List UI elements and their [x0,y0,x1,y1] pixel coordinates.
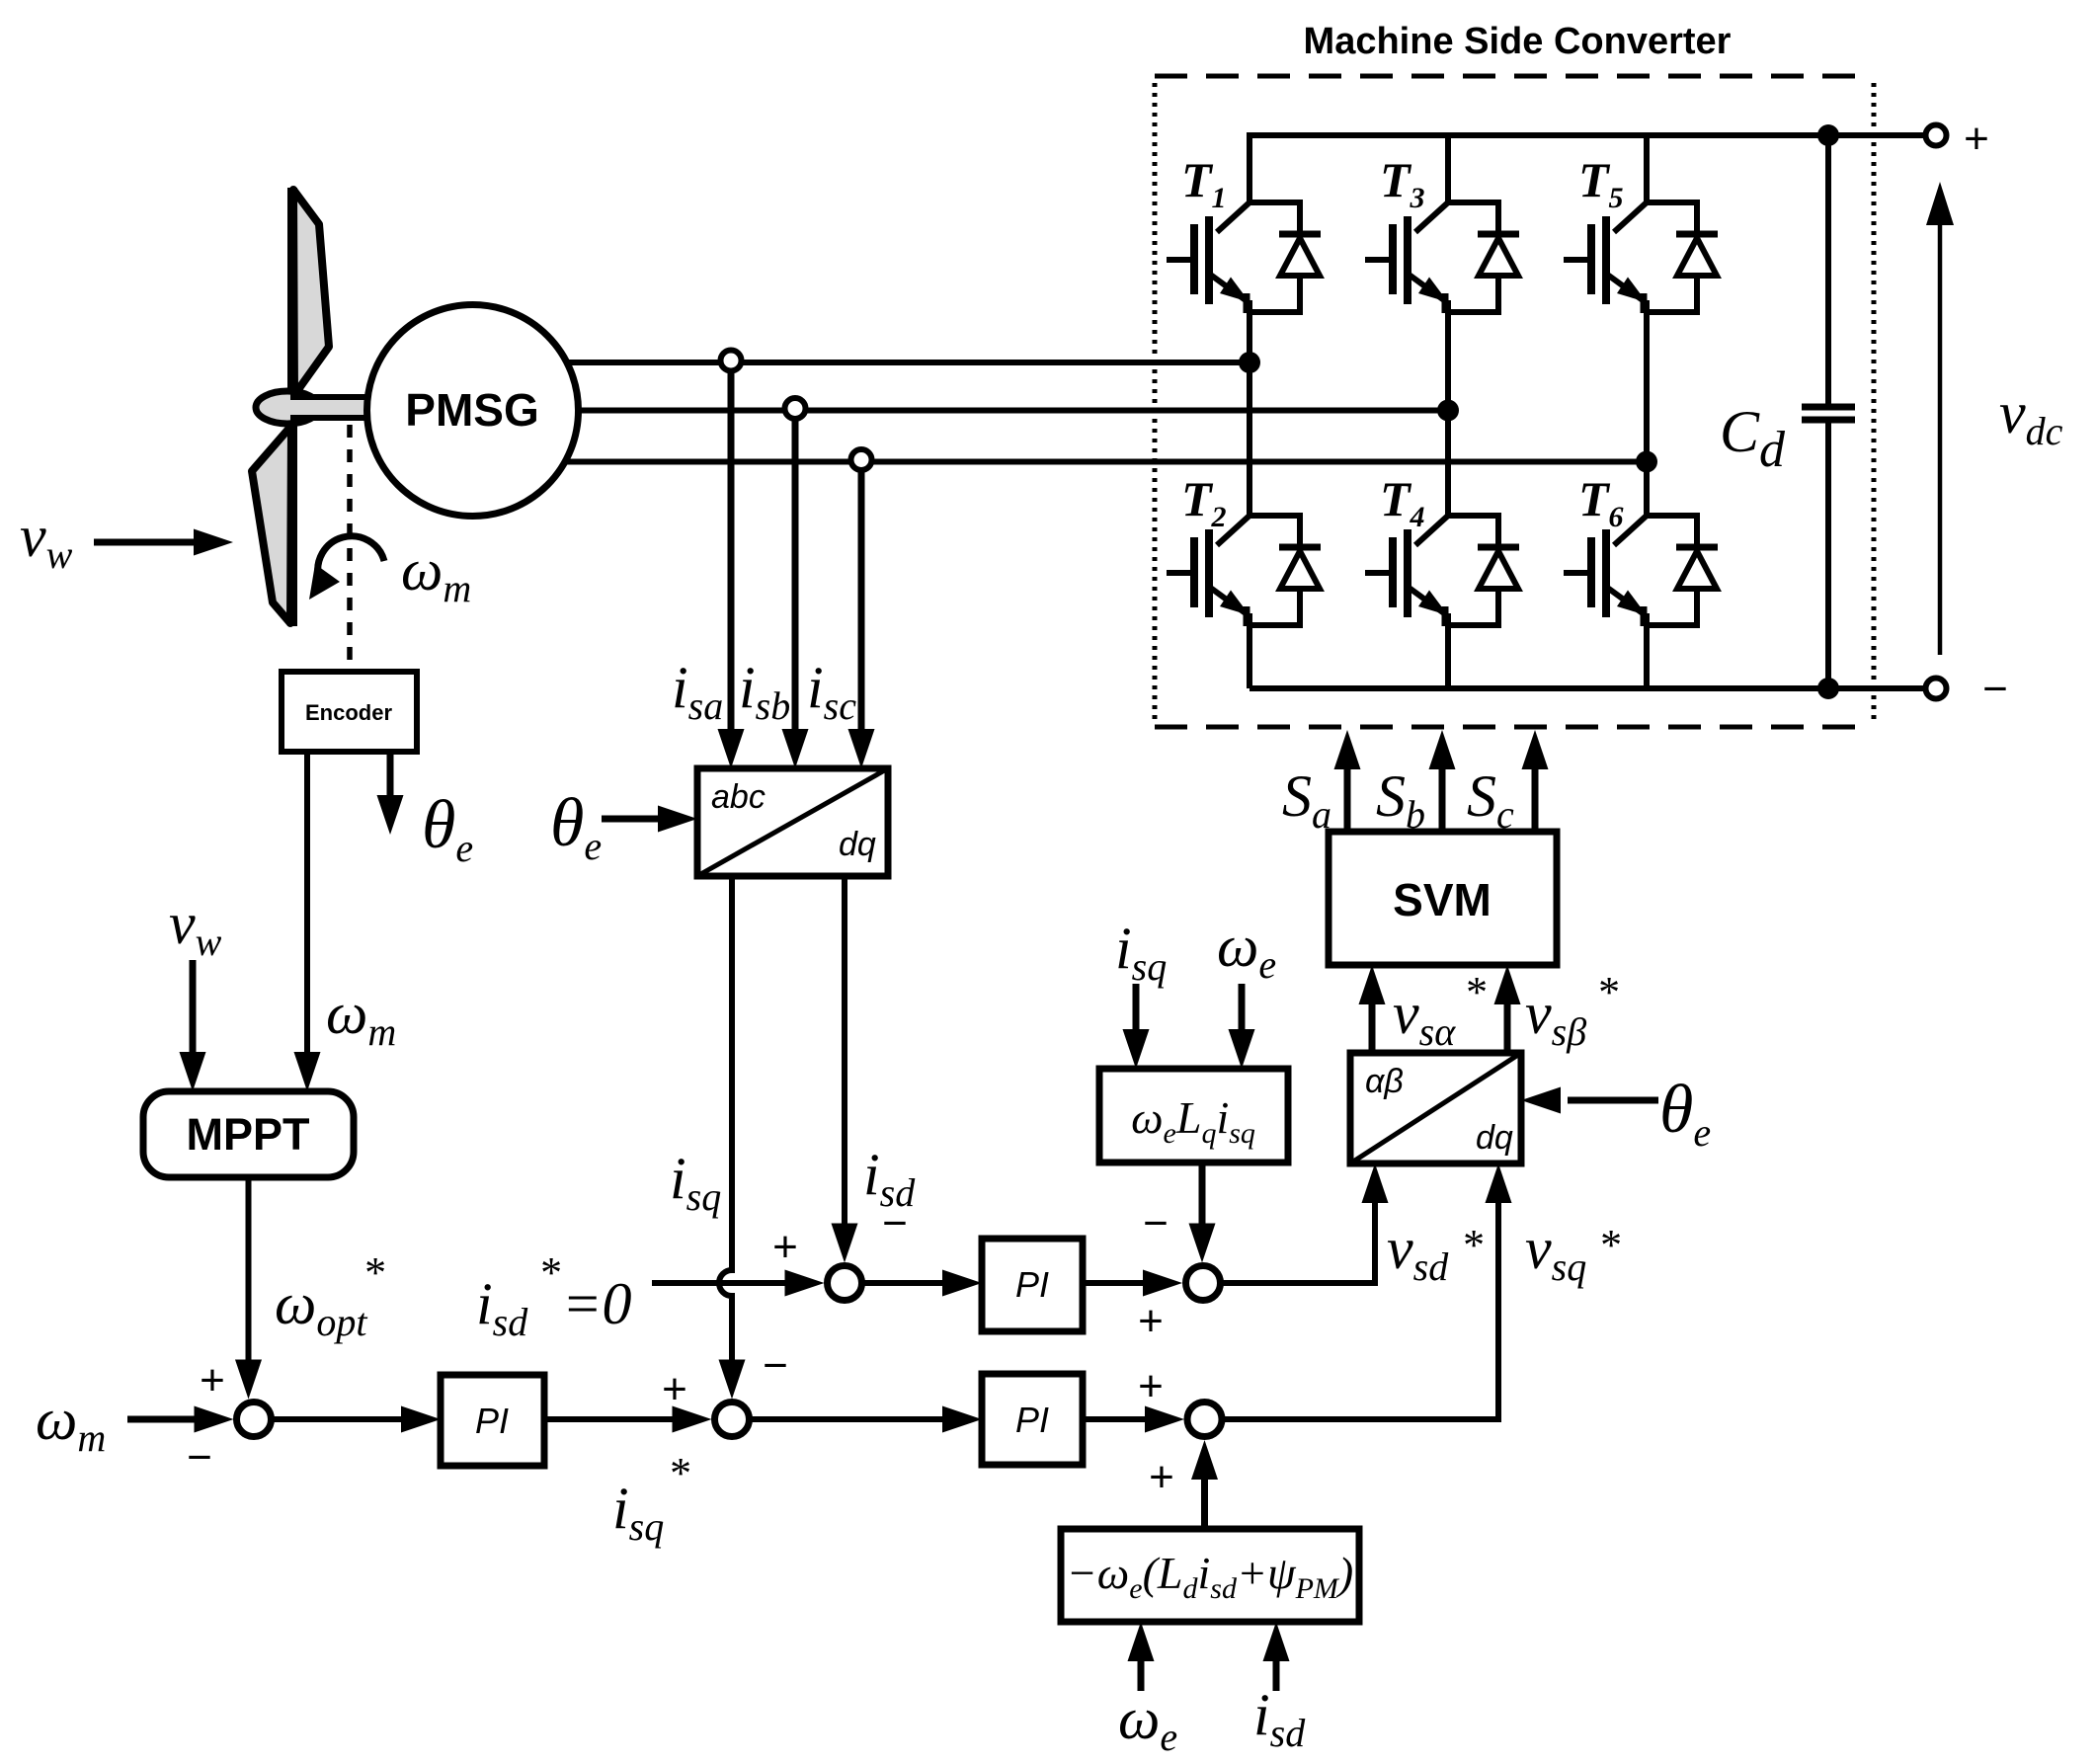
svg-text:isq: isq [670,1146,721,1219]
svg-text:vsα: vsα [1393,981,1456,1054]
svg-text:Cd: Cd [1720,399,1786,478]
wire: q-axis PI to summing junction SD [1083,1416,1151,1422]
wire: d-axis PI to summing junction SB [1083,1280,1149,1286]
svg-text:*: * [1464,968,1486,1016]
svg-text:abc: abc [711,778,766,816]
wire: phase a from PMSG to converter leg 1 [563,360,1250,365]
svg-text:isa: isa [672,655,723,728]
svg-text:ωm: ωm [326,981,396,1054]
encoder box [282,672,417,752]
wire: speed PI to summing junction SC [544,1416,680,1422]
wire: MPPT output omega_opt* to summing junction S1 [246,1177,252,1363]
svg-text:=0: =0 [562,1271,632,1336]
svg-text:−: − [763,1341,788,1390]
svg-text:T2: T2 [1181,471,1227,533]
wire: leg 1 collector [1247,132,1252,202]
wire: v_salpha* into SVM [1369,1000,1376,1053]
svg-text:Encoder: Encoder [305,700,392,725]
transistor T5 with freewheel diode [1564,202,1718,313]
current sensor phase c [851,449,872,470]
svg-text:θe: θe [1659,1072,1711,1155]
wind turbine bottom blade [252,426,291,623]
wire: negative dc rail [1250,685,1926,691]
svg-text:dq: dq [1476,1119,1513,1157]
arc arrow omega_m rotation [318,536,384,579]
decoupling block omega_e L_q i_sq [1099,1069,1288,1163]
wire: v_w input to MPPT [190,960,197,1055]
turbine shaft [290,398,371,417]
PI controller speed loop [441,1375,544,1466]
wire: phase c from PMSG to converter leg 3 [563,459,1647,465]
svg-text:vsq: vsq [1525,1216,1586,1289]
svg-text:isq: isq [612,1476,664,1549]
svg-text:*: * [1461,1221,1483,1269]
svg-text:−: − [882,1199,908,1247]
summing junction SC (q-axis current) [715,1403,750,1437]
svg-text:T3: T3 [1380,152,1425,214]
terminal: dc positive output [1926,125,1947,146]
svg-text:ωm: ωm [36,1387,106,1460]
wire: i_sq into decoupling block [1133,984,1140,1035]
node: phase c junction [1636,451,1657,473]
svg-text:−: − [187,1433,212,1482]
wire: leg 1 lower emitter to negative rail [1247,613,1252,688]
wire: omega_m feedback into S1 [127,1416,200,1423]
wind turbine rotor blade spar [287,188,297,626]
wire: v_dc measurement arrow [1938,209,1943,655]
svg-text:T6: T6 [1578,471,1624,533]
transistor T2 with freewheel diode [1167,516,1321,626]
svg-text:isb: isb [739,655,790,728]
wire: leg 2 collector [1445,132,1451,202]
svg-text:ωopt: ωopt [275,1271,367,1344]
current sensor phase b [785,398,806,419]
svg-text:+: + [1964,115,1989,163]
svg-text:+: + [1138,1362,1164,1410]
wire: phase b from PMSG to converter leg 2 [573,408,1448,414]
PI controller q-axis current [982,1374,1083,1465]
svg-text:θe: θe [550,785,602,868]
summing junction SA (d-axis current) [828,1266,862,1301]
wire: leg 3 lower collector [1644,461,1650,516]
svg-text:T5: T5 [1578,152,1624,214]
PI controller d-axis current [982,1239,1083,1331]
wire: gating signal S_c into converter [1532,763,1539,832]
svg-text:+: + [1149,1453,1174,1501]
wire: i_sd into feedforward block [1273,1655,1280,1691]
svg-text:vsβ: vsβ [1525,981,1586,1054]
wire: SC to q-axis PI [750,1416,949,1422]
abc to dq transform block [697,768,888,876]
svg-text:+: + [1138,1297,1164,1345]
svg-text:*: * [668,1449,689,1497]
wind turbine top blade [293,190,329,395]
svg-text:vw: vw [169,891,222,964]
wire: encoder speed output to MPPT [304,752,310,1055]
wire: decoupling block output into SB [1199,1163,1206,1229]
svg-text:dq: dq [839,826,876,863]
svg-text:ωe: ωe [1217,914,1276,987]
svg-text:*: * [1596,968,1618,1016]
wire: gating signal S_b into converter [1439,763,1446,832]
svg-text:−: − [1143,1199,1169,1247]
transistor T1 with freewheel diode [1167,202,1321,313]
summing junction S1 [237,1403,272,1437]
wire: theta_e into abc/dq block [602,816,664,823]
svg-text:Sa: Sa [1282,763,1331,837]
wire: i_sq from abc/dq block down to SC with hop over i_sd* line [719,876,732,1363]
wire: i_sc measurement to abc/dq [858,470,865,735]
wire: v_w wind arrow [94,539,198,546]
summing junction SB (v_sd) [1186,1266,1221,1301]
svg-text:ωm: ωm [401,537,471,610]
wire: leg 3 lower emitter to negative rail [1644,613,1650,688]
svg-text:PI: PI [475,1401,509,1441]
svg-text:T1: T1 [1181,152,1227,214]
wire: i_sb measurement to abc/dq [792,419,799,735]
wire: encoder theta_e output arrow [387,752,394,802]
SVM modulator block [1329,832,1557,965]
wire: theta_e into alphabeta/dq block [1568,1097,1658,1104]
machine side converter dashed enclosure [1155,74,1874,79]
wire: leg 3 collector [1644,132,1650,202]
transistor T6 with freewheel diode [1564,516,1718,626]
svg-text:isq: isq [1115,916,1167,989]
svg-text:−: − [1982,665,2008,713]
svg-text:T4: T4 [1380,471,1425,533]
wire: i_sd*=0 reference into SA [652,1280,790,1286]
turbine hub [256,391,319,424]
current sensor phase a [721,351,742,371]
svg-text:+: + [662,1365,687,1413]
svg-text:isc: isc [807,655,856,728]
wire: dashed shaft line to encoder [347,425,353,668]
MPPT block [143,1091,354,1177]
wire: SD output v_sq* up into dq->alphabeta block [1222,1197,1498,1419]
wire: leg 3 emitter to phase c node [1644,300,1650,464]
svg-text:Sb: Sb [1376,763,1425,837]
wire: omega_e into decoupling block [1239,984,1246,1035]
wire: leg 2 lower emitter to negative rail [1445,613,1451,688]
alphabeta to dq transform block [1350,1053,1521,1163]
summing junction SD (v_sq) [1187,1403,1222,1437]
svg-text:+: + [200,1356,225,1404]
wire: i_sa measurement to abc/dq [728,370,735,735]
wire: positive dc rail [1250,132,1926,138]
wire: omega_e into feedforward block [1138,1655,1145,1691]
node: dc- capacitor junction [1817,678,1839,699]
svg-text:PI: PI [1015,1264,1049,1305]
wire: gating signal S_a into converter [1344,763,1351,832]
svg-text:MPPT: MPPT [186,1109,309,1160]
svg-text:Sc: Sc [1467,763,1514,837]
wire: leg 2 emitter to phase b node [1445,300,1451,413]
node: phase a junction [1239,352,1260,373]
node: dc+ capacitor junction [1817,124,1839,146]
svg-text:vw: vw [20,504,73,577]
svg-text:SVM: SVM [1393,874,1491,925]
svg-text:isd: isd [476,1271,528,1344]
feedforward block -omega_e(L_d i_sd + psi_PM) [1061,1529,1359,1622]
svg-text:PMSG: PMSG [405,384,538,436]
svg-text:*: * [1598,1221,1620,1269]
svg-text:vsd: vsd [1387,1216,1449,1289]
svg-text:PI: PI [1015,1400,1049,1440]
wire: SA to d-axis PI [862,1280,949,1286]
wire: v_sbeta* into SVM [1504,1000,1511,1053]
wire: leg 1 emitter to phase a node [1247,300,1252,365]
svg-text:isd: isd [1253,1682,1306,1755]
svg-text:vdc: vdc [1999,380,2063,453]
wire: feedforward output into SD [1201,1474,1208,1529]
capacitor Cd [1825,135,1831,406]
wire: leg 2 lower collector [1445,410,1451,516]
wire: SB output v_sd* up into dq->alphabeta block [1221,1197,1376,1283]
svg-text:*: * [363,1248,384,1297]
svg-text:*: * [538,1248,560,1297]
svg-text:Machine Side Converter: Machine Side Converter [1304,21,1732,62]
wire: i_sd from abc/dq block down into SA [842,876,847,1233]
svg-text:+: + [772,1223,798,1271]
svg-text:θe: θe [422,787,473,870]
svg-text:ωe: ωe [1118,1686,1177,1759]
wire: leg 1 lower collector [1247,362,1252,516]
node: phase b junction [1437,400,1459,422]
wire: S1 to speed PI [272,1416,408,1422]
transistor T4 with freewheel diode [1365,516,1519,626]
svg-text:αβ: αβ [1365,1063,1404,1100]
generator PMSG [367,305,579,517]
transistor T3 with freewheel diode [1365,202,1519,313]
terminal: dc negative output [1926,679,1947,699]
